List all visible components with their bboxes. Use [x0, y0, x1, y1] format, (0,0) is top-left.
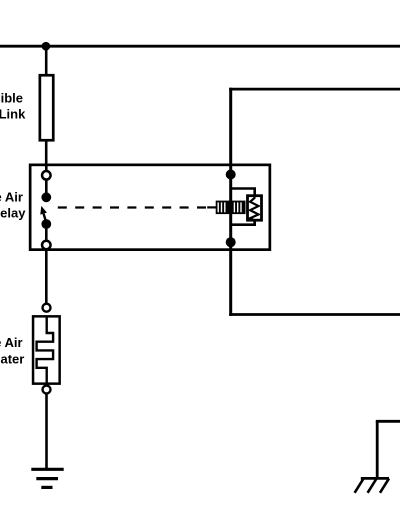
- relay contact (lower dot): [41, 219, 51, 229]
- resistor zigzag element: [250, 195, 258, 224]
- heater terminal (bottom, open circle): [43, 386, 51, 394]
- air heater box: [33, 316, 60, 383]
- relay fixed contact (upper dot): [41, 192, 51, 202]
- chassis ground symbol: [355, 478, 389, 492]
- wire: relay switch leg lower: [45, 224, 48, 251]
- wire: big loop top edge going off right: [229, 88, 400, 91]
- fusible link body: [40, 75, 53, 140]
- wire: heater to ground: [45, 394, 48, 470]
- node: coil feed upper junction: [226, 170, 236, 180]
- relay terminal (bottom, open circle): [42, 241, 51, 250]
- wire: resistor parallel loop: [231, 189, 255, 225]
- wire: coil feed vertical (big loop left side): [229, 88, 232, 316]
- relay box outline: [30, 165, 270, 250]
- relay movable contact arrow: [40, 206, 47, 224]
- ground symbol (earth): [31, 469, 63, 487]
- node: junction on top bus: [42, 42, 51, 51]
- wire: chassis ground drop: [376, 421, 379, 478]
- wire: off-page lead to chassis ground: [376, 420, 400, 423]
- dashed mechanical link from switch to coil: [58, 206, 207, 208]
- svg-text:Heater: Heater: [0, 351, 24, 366]
- relay terminal (top, open circle): [42, 171, 51, 180]
- svg-text:Intake Air: Intake Air: [0, 190, 23, 205]
- wire: fusible link to relay box: [45, 140, 48, 166]
- wire: coil lead stub: [207, 206, 216, 208]
- wire: junction to fusible link: [45, 46, 48, 75]
- node: coil feed lower junction: [226, 237, 236, 247]
- resistor R (box): [248, 196, 262, 221]
- heater element (square zigzag): [37, 316, 54, 383]
- svg-text:Heater Relay: Heater Relay: [0, 206, 26, 221]
- wire: big loop bottom edge going off right: [229, 313, 400, 316]
- svg-text:Intake Air: Intake Air: [0, 335, 23, 350]
- svg-text:Fusible: Fusible: [0, 91, 23, 106]
- wire: relay to air heater: [45, 250, 48, 304]
- wire: top power bus: [0, 45, 400, 48]
- heater terminal (top, open circle): [43, 304, 51, 312]
- relay coil solenoid (hatched bar): [216, 201, 246, 215]
- wire: relay switch leg upper: [45, 164, 48, 197]
- svg-text:Link: Link: [0, 107, 26, 122]
